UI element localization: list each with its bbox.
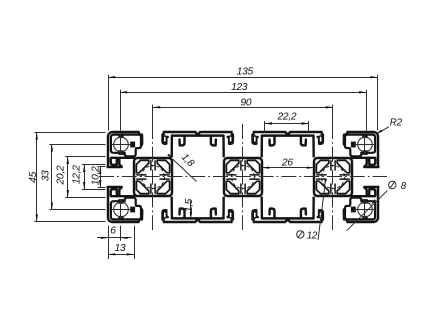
dimension 90	[153, 98, 334, 125]
boss bottom-right	[344, 196, 375, 222]
dimension 10,2	[91, 166, 106, 188]
label R2	[376, 117, 402, 133]
T-slot hat bottom-2	[253, 197, 323, 222]
label d12	[297, 179, 327, 242]
svg-text:45: 45	[28, 171, 39, 182]
centerline flower F3	[332, 124, 334, 230]
profile outer contour	[108, 132, 378, 222]
hole d8 top-right	[355, 135, 375, 155]
svg-text:10,2: 10,2	[91, 166, 102, 185]
dimension 45	[28, 132, 106, 221]
centerline flower F2	[242, 124, 244, 230]
dimension 6	[97, 226, 132, 259]
dimension 135	[108, 66, 378, 130]
dimension 33	[41, 144, 106, 209]
svg-text:90: 90	[240, 98, 251, 109]
boss top-left	[111, 132, 142, 158]
dimension 12,2	[71, 165, 105, 190]
T-slot hat top-2	[253, 132, 323, 157]
label d8	[347, 181, 407, 231]
dimension 22,2	[265, 112, 309, 133]
hole d8 bottom-left	[111, 200, 131, 220]
boss bottom-left	[111, 196, 142, 222]
side T-slot left	[108, 158, 135, 196]
flower screw channel F1	[134, 158, 172, 196]
svg-text:22,2: 22,2	[276, 112, 296, 123]
T-slot hat top-1	[163, 132, 233, 157]
T-slot hat bottom-1	[163, 197, 233, 222]
svg-text:6: 6	[110, 226, 116, 237]
dimension 123	[120, 82, 367, 131]
svg-text:8: 8	[401, 181, 407, 192]
flower screw channel F2	[224, 158, 262, 196]
svg-text:20,2: 20,2	[56, 165, 67, 185]
svg-text:R2: R2	[390, 117, 403, 128]
hole d8 top-left	[111, 135, 131, 155]
label 1,5	[184, 198, 195, 218]
svg-text:12: 12	[307, 230, 318, 241]
centerline flower F1	[152, 124, 154, 230]
dimension 13	[108, 226, 135, 259]
flower screw channel F3	[314, 158, 352, 196]
svg-text:1,5: 1,5	[184, 198, 195, 212]
side T-slot right	[352, 158, 379, 196]
svg-text:26: 26	[281, 157, 293, 168]
dimension 20,2	[56, 157, 106, 198]
svg-text:13: 13	[114, 243, 125, 254]
svg-text:33: 33	[41, 170, 52, 181]
svg-text:135: 135	[237, 66, 254, 77]
hole d8 bottom-right	[355, 200, 375, 220]
boss top-right	[344, 132, 375, 158]
dimension 26	[262, 157, 314, 168]
label 1,8	[167, 152, 196, 182]
svg-text:12,2: 12,2	[71, 165, 82, 184]
svg-text:123: 123	[231, 82, 248, 93]
horizontal centerline	[99, 176, 387, 178]
